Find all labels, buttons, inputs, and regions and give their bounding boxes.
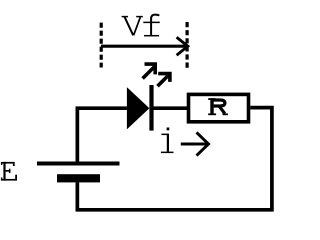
LED light emission arrow 1 [143, 64, 156, 78]
label E [1, 162, 17, 181]
label i (current) [161, 128, 174, 154]
current direction arrow [181, 132, 209, 155]
Vf dimension arrow [101, 37, 188, 55]
dashed extension line left (Vf measurement) [100, 23, 103, 68]
wire: battery positive up and across to LED anode [77, 108, 127, 163]
resistor R box [189, 94, 249, 121]
LED light emission arrow 2 [158, 74, 170, 87]
LED D1 cathode bar [149, 85, 153, 131]
label R [208, 98, 228, 115]
wire: resistor to right rail, down, bottom rail, up to battery negative [77, 108, 272, 210]
battery E negative plate (short thick) [57, 174, 100, 182]
label Vf [122, 15, 160, 36]
dashed extension line right (Vf measurement) [186, 22, 189, 68]
wire: LED cathode to resistor [154, 106, 188, 110]
LED D1 triangle (anode) [127, 87, 149, 129]
battery E positive plate (long thin) [37, 162, 120, 166]
